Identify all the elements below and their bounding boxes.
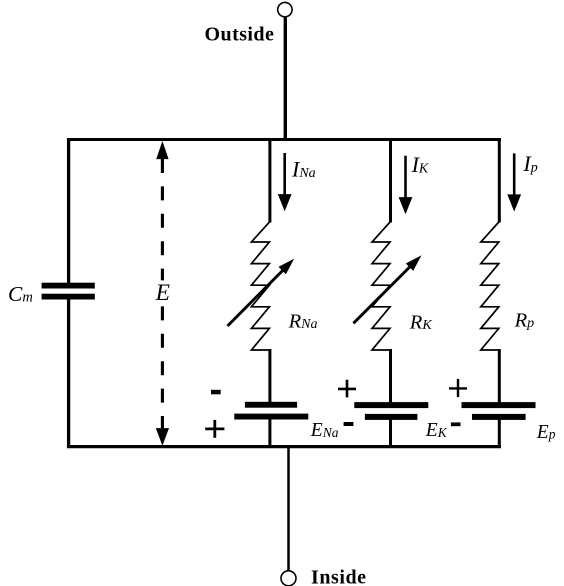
wire: K branch upper <box>389 138 392 223</box>
minus sign (ENa top) <box>211 390 221 395</box>
wire: p branch lower <box>498 418 501 448</box>
battery EK <box>354 402 428 408</box>
wire: inside lead <box>287 445 290 571</box>
battery Ep <box>462 402 536 408</box>
arrow E (membrane potential, dashed double arrow) <box>156 141 169 446</box>
wire: K branch lower <box>389 418 392 448</box>
wire: bottom rail <box>67 445 501 448</box>
plus sign (ENa bottom) <box>205 420 224 438</box>
current arrow INa <box>278 153 292 211</box>
resistor Rp <box>481 222 500 351</box>
minus sign (Ep bottom) <box>451 422 461 426</box>
plus sign (Ep top) <box>449 379 467 397</box>
battery ENa <box>245 402 297 408</box>
wire: left branch upper <box>67 138 70 283</box>
wire: p branch upper <box>498 138 501 223</box>
plus sign (EK top) <box>338 380 356 398</box>
resistor RK (variable) <box>372 222 391 351</box>
wire: K branch middle <box>389 349 392 403</box>
wire: Na branch upper <box>268 138 271 223</box>
wire: outside lead <box>284 17 287 141</box>
svg-text:Outside: Outside <box>205 24 275 46</box>
svg-text:E: E <box>155 280 170 306</box>
wire: Na branch middle <box>268 349 271 403</box>
wire: Na branch lower <box>268 418 271 448</box>
svg-text:Inside: Inside <box>311 567 367 586</box>
arrow across RK <box>353 255 421 323</box>
resistor RNa (variable) <box>251 222 270 351</box>
terminal: Inside <box>281 571 296 586</box>
terminal: Outside <box>278 2 292 16</box>
wire: top rail <box>67 138 501 141</box>
capacitor Cm <box>42 283 95 289</box>
minus sign (EK bottom) <box>344 422 354 426</box>
wire: left branch lower <box>67 299 70 448</box>
wire: p branch middle <box>498 349 501 403</box>
current arrow IK <box>399 156 413 215</box>
current arrow Ip <box>507 153 521 211</box>
arrow across RNa <box>228 259 295 326</box>
